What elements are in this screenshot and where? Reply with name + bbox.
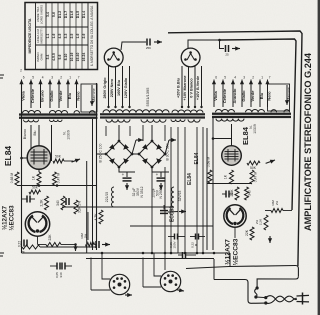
power transformer core bar upper: [100, 113, 205, 115]
left OT terminal arrow Blu: [67, 80, 69, 86]
mains drop from bus: [213, 259, 215, 280]
power transformer secondary tap wire +20V B.Blu: [181, 66, 183, 108]
heater wire 4: [196, 127, 198, 253]
left mid bus wire: [17, 185, 97, 187]
bridge interconnect wire: [97, 153, 107, 155]
bottom cap arrow: [102, 244, 110, 246]
left OT secondary terminal wire Nero: [76, 84, 78, 108]
table row line 1: [36, 26, 89, 28]
bridge2 output wire: [152, 167, 169, 172]
left bottom capacitor 0.05 b: [61, 263, 63, 270]
bottom capacitor with arrow: [95, 241, 97, 248]
left 12AX7 cathode drop: [37, 236, 39, 244]
bridge 1 B+ arrow: [132, 140, 136, 154]
ground bus 2: [86, 258, 214, 260]
left OT terminal arrow Giallo: [49, 80, 51, 86]
right resistor 2.2K 2%: [264, 215, 268, 230]
right OT primary coil group: [216, 119, 244, 122]
left OT secondary terminal wire Viola: [21, 84, 23, 108]
right channel vertical 2: [212, 117, 214, 250]
left OT wire Marrone: [91, 85, 93, 100]
right OT terminal arrow Viola: [213, 80, 215, 86]
decoupling cap arrow: [179, 211, 186, 213]
left lower bus wire: [62, 206, 174, 208]
filter capacitor 2 100uF: [160, 172, 162, 177]
selector 1 top wire: [121, 42, 146, 50]
right resistor 10M to rail: [271, 209, 283, 213]
cord twisted pair: [266, 296, 297, 302]
left OT secondary coil group 1: [23, 110, 41, 113]
heater cap 0.25: [168, 236, 175, 238]
capacitor on selector 1 feed: [146, 39, 148, 46]
left channel wire to volume: [87, 212, 89, 240]
pt secondary stub a: [105, 126, 107, 136]
right OT terminal board outline: [268, 84, 290, 111]
heater stub 1 from PT: [142, 125, 144, 141]
cord knot squiggle: [255, 288, 257, 297]
bridge 2 input wire: [151, 125, 153, 141]
right OT wire Marrone: [286, 85, 288, 99]
right resistor 50K: [247, 161, 260, 165]
right OT terminal arrow Celeste: [222, 80, 224, 86]
table data column line 2: [57, 3, 59, 70]
right OT secondary coil group 1: [216, 109, 235, 112]
EL84 left cathode wire: [38, 169, 40, 172]
left resistor 0.68M: [15, 172, 19, 185]
heater wire 1: [170, 127, 172, 253]
left resistor 10M: [86, 243, 95, 247]
selector 2 feed arrow: [232, 48, 240, 50]
right resistor 0.47M: [250, 170, 254, 184]
left channel vertical 2: [92, 119, 94, 250]
left bottom capacitor 0.05 a: [56, 263, 58, 270]
12AX7 tube right: [224, 205, 246, 227]
left ground arrow: [75, 244, 77, 247]
heater wire x165: [164, 167, 166, 270]
left channel B+ vertical: [96, 83, 98, 250]
left OT primary wire Blu: [38, 125, 40, 146]
bridge1 to bridge2 wire: [132, 153, 139, 155]
selector 2 top wire: [188, 40, 220, 49]
filter choke 1: [112, 187, 114, 207]
right 50K arrow to rail: [266, 160, 275, 163]
power transformer primary tap wire 280V Grigio: [108, 66, 110, 108]
left OT core bar upper: [19, 113, 98, 115]
left OT terminal arrow Verde: [58, 80, 60, 86]
power transformer primary coil row: [103, 110, 169, 113]
right OT secondary terminal wire Celeste: [222, 84, 224, 107]
power transformer secondary tap wire 0 V Bianco: [194, 66, 196, 108]
right resistor 0.68M: [208, 170, 212, 183]
bridge 2 B+ arrow: [165, 140, 169, 154]
power transformer secondary coil group 3: [171, 119, 185, 121]
right OT secondary terminal wire Arancio: [232, 84, 234, 107]
decoupling capacitor below cap2: [163, 205, 165, 210]
right OT core bar lower: [212, 116, 291, 118]
cord knot dot upper: [256, 286, 259, 289]
left OT terminal board outline: [81, 84, 97, 112]
left OT primary coil group 1: [24, 120, 39, 122]
EL84 tube right: [222, 146, 242, 166]
right resistor 2.2K: [235, 187, 239, 200]
DIN input socket right: [160, 271, 180, 291]
right OT core bar upper: [212, 113, 291, 115]
right resistor 22K: [250, 227, 254, 240]
left volume pot 50K: [29, 190, 41, 194]
selector 2 drop wire: [220, 40, 225, 49]
filter capacitor 2 ground arrow: [160, 183, 162, 190]
right OT secondary terminal wire Viola: [213, 84, 215, 107]
left OT primary wire to 50K: [51, 125, 53, 161]
left bottom resistor: [22, 245, 40, 249]
power transformer primary tap wire 120V Giallo: [129, 66, 131, 108]
DIN input socket left: [109, 274, 129, 294]
bus junction dots: [101, 252, 104, 255]
power transformer secondary tap wire +10V B.Verde: [201, 66, 203, 108]
left resistor 340: [61, 196, 65, 210]
socket right arrow: [177, 290, 184, 291]
mains voltage selector plug: [104, 48, 123, 67]
left vertical rail: [21, 84, 23, 253]
heater wire 2: [177, 127, 179, 253]
socket left wire c: [90, 258, 92, 291]
left OT Marrone down arrow: [91, 100, 93, 106]
right OT secondary terminal wire Giallo: [241, 84, 243, 107]
power transformer secondary coil group 2: [141, 119, 166, 122]
left resistor 4.7K: [99, 210, 103, 224]
table data column line 6: [81, 3, 83, 70]
cord junction dots: [264, 296, 267, 299]
filter capacitor 1 32uF: [126, 172, 128, 177]
bridge rectifier 1: [106, 141, 132, 167]
right OT secondary terminal wire Nero: [267, 84, 269, 107]
page right edge line: [318, 0, 320, 315]
left OT primary wire Bianco: [30, 125, 32, 149]
right OT secondary coil group 2: [246, 109, 265, 112]
power transformer primary tap wire 220V Nero: [115, 66, 117, 108]
mains wire lower right: [257, 276, 298, 287]
ground bus 1: [22, 252, 231, 254]
right resistor 1K: [230, 170, 234, 184]
left OT terminal arrow Bruno: [40, 80, 42, 86]
power transformer secondary tap wire +10V Marrone: [188, 66, 190, 108]
power transformer secondary coil group 4: [188, 119, 200, 122]
left bottom wire: [40, 246, 97, 248]
table note strip line: [87, 3, 89, 70]
right OT Marrone down arrow: [286, 99, 288, 105]
bridge 1 input wire: [118, 125, 120, 141]
right OT secondary terminal wire Verde: [250, 84, 252, 107]
left OT terminal arrow Nero: [76, 80, 78, 86]
filter capacitor 1 ground arrow: [126, 183, 128, 190]
table data column line 5: [75, 3, 77, 70]
right OT terminal arrow Nero: [267, 80, 269, 86]
right OT terminal arrow Verde: [250, 80, 252, 86]
EL84 left grid wire from rail: [22, 157, 28, 159]
right OT terminal arrow Arancio: [232, 80, 234, 86]
left 50K resistor to rail: [53, 159, 64, 163]
left OT secondary terminal wire Blu: [67, 84, 69, 108]
center bus wire y226: [130, 225, 213, 227]
left resistor 22K: [46, 243, 61, 247]
mains wire upper: [186, 266, 298, 269]
mains wire lower left: [214, 280, 266, 304]
left resistor 1K: [37, 172, 41, 185]
left coupling capacitor: [26, 196, 28, 203]
left OT core bar lower: [19, 117, 98, 119]
left grid capacitor 0.22M: [23, 240, 25, 247]
right channel vertical 1: [206, 128, 208, 250]
B+ rail outer top: [168, 31, 302, 266]
heater cap 0.22: [190, 236, 196, 238]
left OT secondary coil single 1: [74, 111, 80, 114]
filter choke 2: [172, 187, 175, 207]
left OT secondary coil single 2: [90, 111, 96, 114]
socket right wire a: [154, 253, 161, 276]
left channel vertical 3: [86, 161, 88, 253]
table column line header strip: [45, 3, 47, 70]
right 12AX7 cathode drop: [234, 227, 236, 238]
left OT terminal arrow Celeste: [30, 80, 32, 86]
left OT primary coil group 2: [50, 120, 63, 122]
left feedback arrow: [72, 159, 80, 162]
heater wire 3: [184, 127, 186, 253]
heater stub 2 from PT: [164, 125, 166, 141]
bias selector plug: [181, 48, 200, 67]
table row line 2: [36, 44, 89, 46]
right ground arrow: [269, 236, 271, 243]
left OT terminal arrow Viola: [21, 80, 23, 86]
left resistor 0.47M: [53, 172, 57, 185]
left margin tick top: [0, 74, 4, 76]
table data column line 1: [51, 3, 53, 70]
left OT secondary terminal wire Celeste: [30, 84, 32, 108]
power transformer primary tap wire 160V Blu: [122, 66, 124, 108]
impedance table frame: [25, 3, 98, 70]
socket left wire a: [102, 253, 110, 279]
right coupling capacitor: [225, 191, 227, 198]
left resistor 3.3K: [74, 200, 78, 214]
bridge rectifier 2: [139, 141, 165, 167]
heater bypass capacitor: [178, 254, 183, 256]
EL84 right plate wire: [213, 139, 232, 146]
right resistor 340: [245, 187, 249, 200]
right OT secondary coil single 1: [271, 110, 277, 113]
12AX7 tube left: [25, 212, 49, 236]
right OT terminal arrow Blu: [259, 80, 261, 86]
power transformer hv coil row: [172, 110, 203, 113]
table data column line 3: [63, 3, 65, 70]
B+ rail inner top: [220, 39, 297, 210]
left OT secondary terminal wire Giallo: [49, 84, 51, 108]
socket left wire b: [91, 289, 110, 291]
right mid bus wire: [207, 183, 252, 185]
socket right wire b: [143, 286, 161, 288]
socket right wire c: [142, 258, 144, 288]
pt secondary stub b: [129, 126, 131, 136]
capacitor on selector 2 feed: [225, 45, 227, 52]
bridge1 output wire: [119, 167, 135, 172]
left extra coupling cap: [65, 198, 67, 205]
bus drop to mains upper: [229, 253, 231, 266]
heater wire 5: [202, 127, 204, 253]
left OT secondary terminal wire Verde: [58, 84, 60, 108]
right OT primary wire down: [231, 124, 233, 139]
socket left arrow: [125, 294, 132, 296]
table data column line 4: [69, 3, 71, 70]
power transformer core bar lower: [100, 116, 205, 118]
left OT secondary coil group 2: [50, 110, 68, 113]
right OT secondary coil single 2: [284, 110, 290, 113]
table column line title strip: [35, 3, 37, 70]
right OT secondary terminal wire Blu: [259, 84, 261, 107]
right OT terminal arrow Giallo: [241, 80, 243, 86]
mains right vertical: [297, 269, 299, 277]
power transformer secondary coil group 1: [106, 119, 130, 122]
left resistor 2.2K: [45, 196, 49, 210]
cord knot to twist: [256, 296, 266, 299]
left margin tick bottom: [0, 252, 4, 254]
EL84 tube left: [27, 146, 51, 170]
heater wire 0: [151, 168, 153, 253]
selector 1 feed arrow: [154, 41, 162, 43]
left OT secondary terminal wire Bruno: [40, 84, 42, 108]
mains plug: [302, 293, 304, 305]
